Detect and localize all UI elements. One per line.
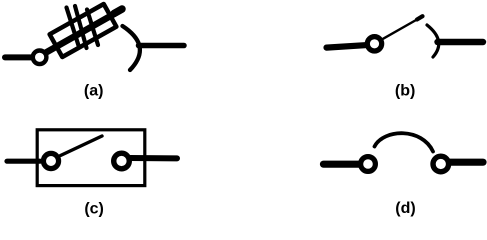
- svg-text:(a): (a): [84, 83, 104, 100]
- blade tip of switch (a): [114, 9, 122, 14]
- wire: right lead of switch (c): [131, 155, 178, 161]
- wire: right lead of switch (a): [139, 43, 185, 49]
- bridging contact arc of switch (d): [375, 133, 434, 151]
- node: left terminal circle of switch (d): [361, 157, 376, 172]
- fixed contact arc of switch (a): [123, 26, 140, 70]
- node: hinge terminal circle of switch (b): [367, 37, 381, 51]
- node: fixed terminal circle of switch (c): [114, 153, 130, 169]
- wire: right lead of switch (d): [450, 159, 484, 166]
- hatch mark 1 across blade of switch (a): [67, 8, 79, 46]
- switch S(c) blade (open): [61, 136, 103, 156]
- node: hinge terminal circle of switch (c): [43, 153, 58, 168]
- wire: left lead of switch (d): [324, 161, 360, 168]
- hatch mark 3 across blade of switch (a): [87, 10, 98, 46]
- blade tip of switch (b): [417, 16, 423, 19]
- node: right terminal circle of switch (d): [433, 156, 449, 172]
- fuse box outline around blade of switch (a): [50, 4, 117, 57]
- svg-text:(c): (c): [84, 200, 104, 217]
- svg-text:(d): (d): [395, 200, 415, 217]
- fixed contact arc of switch (b): [427, 25, 439, 57]
- wire: left lead of switch (b): [327, 45, 366, 47]
- switch S(a) blade (closed, with fuse box): [46, 10, 122, 53]
- enclosure box of switch (c): [37, 130, 145, 186]
- node: hinge terminal circle of switch (a): [33, 51, 47, 65]
- hatch mark 2 across blade of switch (a): [75, 6, 87, 48]
- svg-text:(b): (b): [395, 83, 415, 100]
- switch S(b) blade (open): [383, 18, 421, 39]
- wire: left lead of switch (c): [7, 159, 40, 164]
- wire: left lead of switch (a): [5, 54, 32, 60]
- wire: right lead of switch (b): [438, 39, 484, 45]
